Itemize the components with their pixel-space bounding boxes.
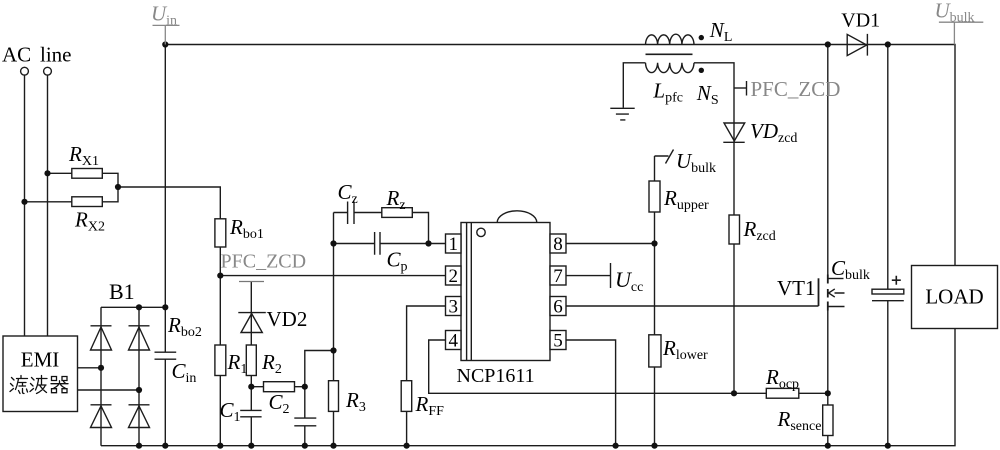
wire pin8 to divider node	[566, 243, 655, 245]
node pin1 right	[425, 240, 431, 246]
node divider pin8	[651, 240, 657, 246]
wire compensation top branch Cz Rz	[334, 213, 429, 244]
wire pin1 net vertical and R3	[333, 213, 335, 446]
node Uin junction	[162, 41, 168, 47]
node RX sense	[115, 184, 121, 190]
LOAD box	[912, 266, 998, 329]
terminal slash Ubulk at Rupper	[666, 150, 674, 164]
IC pin box 5	[550, 331, 566, 350]
wire Rbo1 bottom to PFC_ZCD node to pin2	[220, 247, 446, 345]
node gnd C1	[248, 443, 254, 449]
polarity dot NS	[699, 68, 704, 73]
node gnd R3	[330, 443, 336, 449]
resistor Rzcd	[729, 215, 740, 244]
wire top rail Uin to LOAD top	[165, 45, 955, 266]
svg-text:NCP1611: NCP1611	[457, 365, 535, 387]
node R2 left	[248, 384, 254, 390]
node gnd Cin	[162, 443, 168, 449]
svg-text:EMI: EMI	[21, 348, 60, 372]
IC pin box 1	[446, 234, 462, 253]
terminal bar PFC_ZCD at NS	[746, 81, 748, 96]
wire RX1 branch	[48, 173, 119, 187]
node PFC_ZCD pin2	[217, 273, 223, 279]
terminal AC	[21, 67, 29, 75]
polarity dot NL	[699, 35, 704, 40]
wire bridge top rail	[101, 306, 165, 308]
node gnd C2	[302, 443, 308, 449]
inductor Lpfc primary winding NL	[646, 34, 695, 44]
node gnd Rlower	[651, 443, 657, 449]
capacitor Cbulk minus plate	[872, 300, 904, 302]
svg-text:2: 2	[448, 266, 458, 287]
ground symbol	[610, 108, 634, 120]
svg-text:3: 3	[448, 297, 458, 318]
wire compensation mid branch Cp to pin1	[334, 243, 447, 245]
IC left double line	[467, 223, 472, 361]
resistor Rbo2	[215, 345, 226, 376]
diode VDzcd	[723, 123, 744, 142]
wire AC terminal to EMI box	[24, 75, 26, 336]
wire C2 branch	[304, 387, 306, 446]
resistor Rbo1	[215, 219, 226, 247]
wire line terminal to EMI box	[47, 75, 49, 336]
IC pin box 4	[446, 331, 462, 350]
wire Lpfc secondary left to ground	[623, 63, 645, 108]
wire VT1 source to Rsence to ground	[827, 311, 829, 446]
svg-text:PFC_ZCD: PFC_ZCD	[751, 77, 841, 101]
node bridge left mid	[98, 365, 104, 371]
wire R1 bottom to C1 to ground	[250, 376, 252, 446]
node bridge top Cin	[162, 304, 168, 310]
svg-text:line: line	[40, 43, 72, 67]
transistor VT1 source tick	[828, 306, 845, 308]
wire Rupper Rlower divider line	[655, 156, 669, 446]
wire EMI output lower	[78, 389, 140, 391]
capacitor Cp	[375, 232, 380, 255]
wire bridge right column	[138, 307, 140, 445]
wire bridge left column	[100, 307, 102, 445]
wire sense node to Rbo1 top	[118, 187, 220, 219]
node Rzcd bottom	[731, 390, 737, 396]
svg-text:PFC_ZCD: PFC_ZCD	[221, 251, 307, 273]
node bridge top right col	[136, 304, 142, 310]
wire C2 node up to pin1 net junction	[305, 351, 334, 387]
svg-text:B1: B1	[109, 279, 135, 304]
EMI filter box	[3, 336, 78, 412]
node R2 right	[302, 384, 308, 390]
capacitor Cbulk plus sign	[892, 276, 901, 285]
IC pin box 8	[550, 234, 566, 253]
wire Rocp stubs	[734, 392, 828, 394]
capacitor C2	[294, 418, 316, 426]
svg-text:4: 4	[448, 331, 458, 352]
wire VD2 branch to R1	[250, 282, 252, 346]
bridge B1 diode upper-right	[129, 326, 150, 350]
PFC_ZCD terminal bar above VD2	[239, 281, 264, 283]
IC pin box 3	[446, 297, 462, 316]
node Rocp right	[825, 390, 831, 396]
wire R2 horizontal stubs	[251, 386, 304, 388]
svg-text:6: 6	[553, 297, 563, 318]
svg-text:VD2: VD2	[267, 307, 308, 331]
transistor VT1 drain tick	[828, 278, 844, 280]
svg-text:1: 1	[448, 234, 458, 255]
node gnd pin5	[613, 443, 619, 449]
svg-text:LOAD: LOAD	[925, 285, 983, 309]
wire PFC_ZCD terminal stub	[734, 87, 746, 89]
wire Rbo2 bottom to ground rail	[219, 376, 221, 446]
node gnd RFF	[404, 443, 410, 449]
resistor R2	[264, 382, 295, 392]
net Ubulk terminal top right (gray)	[935, 0, 984, 45]
capacitor Cbulk plus plate	[872, 289, 904, 294]
label Chinese lvboqi (filter) drawn strokes	[10, 376, 68, 394]
inductor core line	[646, 53, 693, 55]
transistor VT1 bulk arrow	[829, 289, 845, 297]
resistor RFF	[401, 381, 412, 412]
resistor RX1	[72, 169, 103, 179]
wire pin3 to RFF to ground	[407, 306, 446, 446]
capacitor C1	[240, 410, 261, 416]
resistor Rupper	[649, 181, 660, 212]
wire pin4 to Rocp node	[429, 340, 734, 393]
wire Cbulk line	[887, 45, 889, 446]
inductor Lpfc secondary winding NS	[646, 63, 695, 73]
capacitor Cz	[348, 202, 354, 225]
diode VD2	[238, 313, 265, 333]
node R3 top	[330, 347, 336, 353]
diode VD1	[847, 34, 867, 56]
transistor VT1 channel segments	[827, 275, 829, 311]
node VT1 drain on top rail	[825, 41, 831, 47]
wire RX2 branch	[25, 188, 119, 202]
svg-text:VT1: VT1	[777, 276, 816, 300]
svg-text:8: 8	[553, 234, 563, 255]
wire Lpfc secondary right to VDzcd Rzcd	[694, 63, 734, 394]
bridge B1 diode lower-left	[91, 405, 112, 428]
IC pin box 2	[446, 266, 462, 285]
node gnd Cbulk	[885, 443, 891, 449]
node gnd Rsence	[825, 443, 831, 449]
node Cbulk on top rail	[885, 41, 891, 47]
IC top notch	[497, 211, 537, 223]
resistor Rsence	[823, 405, 833, 436]
IC pin box 7	[550, 266, 566, 285]
transistor VT1 gate bar	[818, 278, 820, 306]
terminal line	[44, 67, 52, 75]
svg-text:5: 5	[553, 331, 563, 352]
svg-text:VD1: VD1	[841, 10, 880, 32]
net Uin terminal (gray)	[151, 2, 180, 45]
wire pin7 to Ucc terminal	[566, 275, 611, 277]
node gnd bridge right	[136, 443, 142, 449]
resistor R1	[246, 345, 256, 376]
svg-text:7: 7	[553, 266, 563, 287]
resistor Rz	[382, 208, 413, 218]
capacitor Cin	[155, 352, 177, 359]
wire Uin vertical / Cin line	[164, 45, 166, 446]
resistor R3	[329, 381, 339, 412]
terminal bar Ucc	[610, 263, 612, 288]
resistor Rlower	[649, 335, 661, 367]
wire VT1 drain	[827, 45, 829, 275]
wire pin5 to ground	[566, 340, 616, 446]
node pin1 left	[330, 240, 336, 246]
wire ground rail and LOAD bottom	[101, 329, 955, 446]
wire pin6 to VT1 gate	[566, 305, 819, 307]
IC pin1 marker circle	[477, 228, 485, 236]
resistor Rocp	[766, 388, 799, 398]
op IC U1 NCP1611 body	[461, 223, 550, 361]
wire EMI output upper	[78, 367, 102, 369]
IC pin box 6	[550, 297, 566, 316]
bridge B1 diode upper-left	[91, 326, 112, 350]
node AC-RX2	[21, 199, 27, 205]
resistor RX2	[72, 197, 103, 207]
node gnd Rbo2	[217, 443, 223, 449]
node line-RX1	[44, 170, 50, 176]
node bridge right mid	[136, 387, 142, 393]
svg-text:AC: AC	[2, 43, 31, 67]
bridge B1 diode lower-right	[129, 405, 150, 428]
